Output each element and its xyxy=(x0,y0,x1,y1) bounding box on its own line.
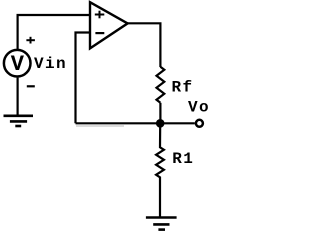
op-amp - input label xyxy=(95,32,104,34)
scan smudge under wire xyxy=(76,125,124,127)
wire: op-amp output to right vertical xyxy=(128,23,161,67)
op-amp + input label xyxy=(95,11,105,19)
svg-text:V: V xyxy=(11,52,25,77)
wire: Rf bottom to node xyxy=(159,103,161,124)
wire: - input stub and vertical feedback leg xyxy=(76,33,91,124)
svg-text:Vin: Vin xyxy=(34,55,67,73)
node junction dot xyxy=(156,119,165,128)
wire: source bottom to ground xyxy=(17,78,19,115)
source + polarity mark xyxy=(26,37,35,44)
source - polarity mark xyxy=(27,85,35,87)
ground (left, under source) xyxy=(4,116,34,126)
svg-text:Vo: Vo xyxy=(188,99,210,117)
wire: bottom horizontal to output terminal xyxy=(76,122,195,124)
wire: source top to op-amp + input xyxy=(18,15,90,49)
svg-text:R1: R1 xyxy=(172,150,194,168)
resistor Rf xyxy=(156,67,164,103)
resistor R1 xyxy=(156,123,164,217)
output terminal Vo (open circle) xyxy=(196,120,203,127)
ground (bottom, under R1) xyxy=(146,218,177,230)
voltage source V (Vin) xyxy=(4,50,31,77)
op-amp U1 xyxy=(90,2,128,48)
svg-text:Rf: Rf xyxy=(172,79,194,97)
